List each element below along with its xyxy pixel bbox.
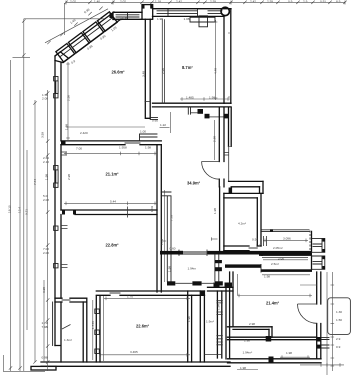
black jamb blocks row y281 <box>167 251 232 287</box>
svg-text:2.59: 2.59 <box>210 0 216 4</box>
door 2 below wall <box>205 114 210 119</box>
svg-text:22.8m²: 22.8m² <box>106 243 120 248</box>
wall H1 bottom of 21.4 room <box>228 327 273 337</box>
top wall: left window section <box>113 5 231 27</box>
svg-text:8.9: 8.9 <box>336 0 341 4</box>
svg-text:1.98: 1.98 <box>217 304 221 310</box>
svg-text:3.48: 3.48 <box>142 71 146 77</box>
svg-text:8.7m²: 8.7m² <box>182 65 193 70</box>
wall right of 1.3m2 <box>83 298 87 362</box>
door box upper <box>312 238 325 252</box>
jog at bottom <box>55 302 61 362</box>
svg-text:21.4m²: 21.4m² <box>266 301 280 306</box>
svg-text:0.60: 0.60 <box>152 118 158 122</box>
svg-text:1.958: 1.958 <box>119 146 127 150</box>
balcony stack right <box>259 229 325 269</box>
svg-text:1.98: 1.98 <box>157 17 163 21</box>
svg-text:1.98: 1.98 <box>264 275 270 279</box>
svg-text:7.00: 7.00 <box>76 147 82 151</box>
svg-text:0.98: 0.98 <box>42 356 48 360</box>
svg-text:18.10: 18.10 <box>8 205 12 213</box>
bottom-left rooms: top wall W5 <box>55 296 104 362</box>
svg-text:1.18: 1.18 <box>155 0 161 4</box>
wall y181-187 right mid <box>229 181 263 193</box>
svg-text:1.22: 1.22 <box>160 123 166 127</box>
inner ledge under top wall <box>190 17 215 22</box>
right wall of 8.7m2 room <box>224 9 232 182</box>
door arc big room <box>202 162 220 180</box>
svg-text:3.59: 3.59 <box>41 132 45 138</box>
corridor walls to cluster <box>220 187 224 251</box>
svg-text:2.9: 2.9 <box>336 337 341 341</box>
svg-text:2.00: 2.00 <box>278 256 284 260</box>
svg-text:1.98: 1.98 <box>122 16 128 20</box>
wall: diagonal window bay inner edge <box>63 19 121 63</box>
svg-text:12.4: 12.4 <box>18 207 22 213</box>
svg-text:2.10: 2.10 <box>43 160 49 164</box>
rotated dim texts <box>8 7 221 329</box>
svg-text:1.94m²: 1.94m² <box>243 351 253 355</box>
inner dim line <box>263 239 308 241</box>
svg-text:1.90: 1.90 <box>187 316 191 322</box>
top wall right segment <box>208 287 234 291</box>
pier in top wall near x203 <box>199 16 208 27</box>
svg-text:1.08: 1.08 <box>184 17 190 21</box>
svg-text:2.42: 2.42 <box>250 0 256 4</box>
svg-text:5.44: 5.44 <box>110 200 116 204</box>
svg-text:1.50: 1.50 <box>336 318 342 322</box>
small ledge right of W1 bottom <box>150 117 157 119</box>
dimension line parallel to diagonal <box>45 9 108 43</box>
svg-text:2.08: 2.08 <box>42 97 48 101</box>
upper ledge step above W2 <box>140 134 158 141</box>
svg-text:2.02: 2.02 <box>70 0 76 4</box>
left margin dimension lines <box>3 3 104 371</box>
interior dims <box>61 20 344 375</box>
svg-text:0.9: 0.9 <box>288 0 293 4</box>
4.2m2 room <box>224 193 263 250</box>
column circle top right <box>221 7 229 15</box>
svg-text:1.00: 1.00 <box>140 130 146 134</box>
dashed corner line right of stack <box>309 231 311 252</box>
top wall pier <box>142 5 153 20</box>
door box lower <box>312 256 325 269</box>
21.4 room right wall <box>298 272 321 359</box>
svg-text:1.40: 1.40 <box>94 0 100 4</box>
door 1 below wall <box>188 107 190 114</box>
svg-text:1.98: 1.98 <box>145 146 151 150</box>
wall: diagonal window bay outer edge <box>45 7 121 63</box>
stoop bottom-left <box>31 366 56 370</box>
interior wall W2 horizontal <box>61 134 161 145</box>
svg-text:2.5m²: 2.5m² <box>271 262 279 266</box>
wc room walls <box>215 255 222 282</box>
top dimension line <box>64 1 346 5</box>
svg-text:2.98: 2.98 <box>213 136 217 142</box>
interior vertical wall W1 <box>145 19 158 119</box>
svg-text:3.465: 3.465 <box>130 350 138 354</box>
svg-text:2.05m²: 2.05m² <box>273 246 283 250</box>
svg-text:1.09: 1.09 <box>160 239 164 245</box>
svg-text:21.1m²: 21.1m² <box>106 172 120 177</box>
svg-text:2.420: 2.420 <box>80 131 88 135</box>
svg-text:0.9: 0.9 <box>336 345 341 349</box>
svg-text:1.98: 1.98 <box>213 208 217 214</box>
svg-text:1.70: 1.70 <box>127 295 133 299</box>
svg-text:0.60: 0.60 <box>170 246 176 250</box>
svg-text:3.096: 3.096 <box>283 237 291 241</box>
svg-text:1.98: 1.98 <box>167 266 171 272</box>
window boxes along diagonal bay <box>56 12 117 62</box>
wall H2 <box>228 336 330 349</box>
svg-text:9.21: 9.21 <box>25 209 29 215</box>
corridor walls above cluster <box>202 107 229 251</box>
top wall of 22.6m2 room W6 <box>96 287 233 295</box>
interior wall W4 horizontal <box>61 210 157 215</box>
svg-text:1.09: 1.09 <box>150 206 154 212</box>
svg-text:1.05: 1.05 <box>256 244 262 248</box>
left exterior wall <box>53 61 68 363</box>
svg-text:2.98: 2.98 <box>249 322 255 326</box>
thin outline line continuing down <box>228 146 230 181</box>
corner piece connecting diagonal to top wall <box>110 13 122 20</box>
svg-text:0.54: 0.54 <box>252 238 258 242</box>
dim line right of W3 <box>163 190 165 282</box>
top dim texts <box>70 0 341 4</box>
svg-text:2.98: 2.98 <box>67 174 71 180</box>
bath cluster: dark band Q <box>225 264 312 272</box>
svg-text:7.78: 7.78 <box>170 215 174 221</box>
bath cluster: dark band P <box>160 250 312 257</box>
svg-text:3.98: 3.98 <box>42 287 46 293</box>
svg-text:2.00: 2.00 <box>43 251 49 255</box>
svg-text:1.90: 1.90 <box>209 95 215 99</box>
svg-text:1.30: 1.30 <box>336 310 342 314</box>
junction walls right of W3 at y192 <box>161 192 171 281</box>
svg-text:2.08: 2.08 <box>43 198 49 202</box>
svg-text:26.6m²: 26.6m² <box>112 70 126 75</box>
top wall: right section outer/inner <box>153 9 232 17</box>
svg-text:2.98: 2.98 <box>161 68 165 74</box>
interior vertical wall W3 <box>157 145 166 292</box>
svg-text:1.94m: 1.94m <box>188 267 197 271</box>
svg-text:4.48: 4.48 <box>214 68 218 74</box>
window boxes on left wall <box>54 77 58 81</box>
svg-text:34.9m²: 34.9m² <box>187 181 201 186</box>
svg-text:2.59: 2.59 <box>267 0 273 4</box>
svg-text:1.3m²: 1.3m² <box>64 338 72 342</box>
interior wall: bottom of 8.7m2 room <box>153 103 232 118</box>
svg-text:1.98: 1.98 <box>45 174 49 180</box>
svg-text:2.42: 2.42 <box>176 0 182 4</box>
bottom exterior wall <box>31 357 321 371</box>
left wall of 22.6 room <box>96 296 100 362</box>
corridor lines <box>226 272 233 359</box>
svg-text:7.74: 7.74 <box>33 179 37 185</box>
balcony rounded rectangle <box>328 298 351 335</box>
svg-text:1.98: 1.98 <box>65 124 69 130</box>
bottom middle small-room walls <box>188 272 233 362</box>
svg-text:7.98: 7.98 <box>42 325 48 329</box>
svg-text:1.98: 1.98 <box>244 339 250 343</box>
door arc 21.4 room <box>298 304 317 323</box>
svg-text:1.98: 1.98 <box>240 366 246 370</box>
svg-text:2.9: 2.9 <box>303 0 308 4</box>
svg-text:2.56: 2.56 <box>67 95 71 101</box>
svg-text:22.6m²: 22.6m² <box>136 324 150 329</box>
svg-text:0.91: 0.91 <box>320 0 326 4</box>
svg-text:1.98: 1.98 <box>286 351 292 355</box>
black squares on stack left <box>259 252 263 256</box>
svg-text:4.2m²: 4.2m² <box>238 222 246 226</box>
svg-text:1.743: 1.743 <box>91 321 95 329</box>
svg-text:1.9m²: 1.9m² <box>206 320 214 324</box>
inner tick marks <box>61 226 68 268</box>
svg-text:2.02: 2.02 <box>120 0 126 4</box>
svg-text:1.485: 1.485 <box>186 95 194 99</box>
corner block where diagonal meets left wall <box>55 52 69 63</box>
thin shaft lines in 8.7 room <box>162 19 164 103</box>
